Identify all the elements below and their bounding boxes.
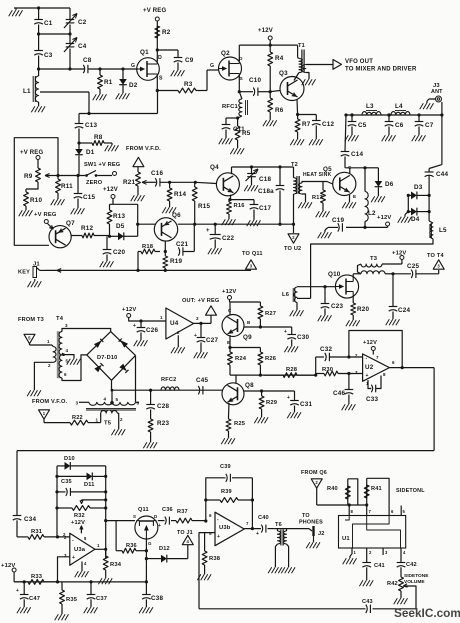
svg-text:+V REG: +V REG <box>143 8 167 14</box>
svg-text:R21: R21 <box>123 179 135 186</box>
svg-text:C46: C46 <box>333 390 345 397</box>
svg-text:T5: T5 <box>104 421 112 427</box>
svg-text:C2: C2 <box>78 19 87 26</box>
svg-text:FROM T3: FROM T3 <box>18 317 44 323</box>
svg-text:R36: R36 <box>126 543 137 549</box>
svg-text:C13: C13 <box>85 122 97 129</box>
svg-text:C25: C25 <box>407 263 419 270</box>
svg-text:R23: R23 <box>157 420 169 427</box>
svg-text:S: S <box>159 76 163 82</box>
svg-text:2: 2 <box>64 535 67 540</box>
svg-text:ANT: ANT <box>431 89 443 95</box>
svg-text:G: G <box>210 63 214 69</box>
svg-text:C28: C28 <box>157 403 169 410</box>
svg-text:C12: C12 <box>322 121 334 128</box>
svg-text:L6: L6 <box>282 292 290 298</box>
svg-text:C14: C14 <box>351 151 363 158</box>
svg-text:C23: C23 <box>331 303 343 310</box>
svg-text:C9: C9 <box>185 57 194 64</box>
svg-text:-: - <box>366 356 368 362</box>
svg-text:C37: C37 <box>96 596 107 602</box>
svg-text:C19: C19 <box>332 217 344 224</box>
svg-text:7: 7 <box>246 521 249 526</box>
svg-text:T2: T2 <box>291 162 298 168</box>
svg-text:C17: C17 <box>259 205 271 212</box>
svg-text:+: + <box>133 323 136 329</box>
svg-text:S: S <box>240 76 244 82</box>
svg-text:PHONES: PHONES <box>299 520 323 526</box>
svg-text:+: + <box>287 395 290 401</box>
svg-text:R6: R6 <box>275 107 284 114</box>
svg-text:2: 2 <box>177 330 180 335</box>
svg-text:+12V: +12V <box>377 215 392 221</box>
svg-text:C: C <box>228 308 232 313</box>
svg-text:VFO OUT: VFO OUT <box>345 59 373 65</box>
svg-text:C38: C38 <box>151 595 163 602</box>
svg-text:D2: D2 <box>129 82 138 89</box>
svg-text:R9: R9 <box>24 173 33 180</box>
svg-text:R8: R8 <box>94 134 103 141</box>
svg-text:C35: C35 <box>61 479 72 485</box>
svg-text:D5: D5 <box>116 223 125 230</box>
svg-text:2: 2 <box>355 353 358 358</box>
svg-text:R14: R14 <box>174 191 186 198</box>
svg-text:TO MIXER AND DRIVER: TO MIXER AND DRIVER <box>345 67 417 73</box>
svg-text:FROM V.F.O.: FROM V.F.O. <box>32 399 67 405</box>
svg-text:SeekIC.com: SeekIC.com <box>394 606 460 620</box>
svg-text:2: 2 <box>48 363 51 368</box>
svg-text:R41: R41 <box>371 486 382 492</box>
svg-text:C41: C41 <box>374 563 385 569</box>
svg-text:J2: J2 <box>318 531 325 537</box>
svg-text:R4: R4 <box>275 55 284 62</box>
svg-text:R20: R20 <box>357 306 369 313</box>
svg-text:R18: R18 <box>142 244 154 250</box>
svg-text:D1: D1 <box>86 149 95 156</box>
svg-text:3: 3 <box>196 316 199 321</box>
svg-text:Q6: Q6 <box>172 212 181 219</box>
svg-text:KEY: KEY <box>18 270 30 276</box>
svg-text:D: D <box>154 514 158 519</box>
svg-text:C16: C16 <box>151 170 163 177</box>
svg-text:Q7: Q7 <box>66 220 75 227</box>
svg-text:+V REG: +V REG <box>20 150 44 156</box>
svg-text:R25: R25 <box>234 421 246 427</box>
svg-text:T1: T1 <box>298 43 305 49</box>
svg-text:C40: C40 <box>258 515 269 521</box>
svg-text:R19: R19 <box>170 258 182 265</box>
svg-text:+12V: +12V <box>71 520 85 526</box>
svg-text:C32: C32 <box>320 346 332 353</box>
svg-text:3: 3 <box>76 401 79 406</box>
svg-text:L1: L1 <box>23 88 31 95</box>
svg-text:Q10: Q10 <box>328 271 341 278</box>
svg-text:U3b: U3b <box>219 525 231 531</box>
svg-text:TO J1: TO J1 <box>177 530 193 536</box>
svg-text:R27: R27 <box>265 311 276 317</box>
svg-text:C8: C8 <box>83 57 92 64</box>
svg-text:SIDETONL: SIDETONL <box>396 488 425 494</box>
svg-text:6: 6 <box>209 513 212 518</box>
svg-text:4: 4 <box>104 397 107 402</box>
svg-text:C1: C1 <box>44 20 53 27</box>
svg-text:R24: R24 <box>235 356 247 362</box>
svg-text:1: 1 <box>47 339 50 344</box>
svg-text:1: 1 <box>160 315 163 320</box>
svg-text:C22: C22 <box>222 235 234 242</box>
svg-text:G: G <box>148 541 152 546</box>
svg-text:+12V: +12V <box>392 251 407 257</box>
svg-text:SIDETONE: SIDETONE <box>404 573 429 579</box>
svg-text:C18a: C18a <box>258 188 274 195</box>
svg-text:Q3: Q3 <box>279 70 288 77</box>
svg-text:Q4: Q4 <box>210 164 219 171</box>
svg-text:C43: C43 <box>362 599 373 605</box>
svg-text:C10: C10 <box>249 77 261 84</box>
svg-text:R40: R40 <box>327 486 338 492</box>
svg-text:+: + <box>206 228 210 234</box>
svg-text:R33: R33 <box>31 574 43 580</box>
svg-text:L4: L4 <box>395 103 403 110</box>
svg-text:C21: C21 <box>176 241 188 248</box>
svg-text:Q11: Q11 <box>138 507 149 513</box>
svg-text:R11: R11 <box>61 183 73 190</box>
svg-text:R10: R10 <box>30 197 42 204</box>
svg-text:U3a: U3a <box>74 547 86 553</box>
svg-text:D6: D6 <box>385 181 394 188</box>
svg-text:T6: T6 <box>275 522 282 528</box>
svg-text:RFC2: RFC2 <box>161 377 176 383</box>
svg-text:C39: C39 <box>220 464 231 470</box>
svg-text:L5: L5 <box>439 227 447 234</box>
svg-text:C7: C7 <box>425 122 434 129</box>
svg-text:2: 2 <box>120 417 123 422</box>
svg-text:R3: R3 <box>184 81 193 88</box>
svg-text:L3: L3 <box>366 103 374 110</box>
svg-text:5: 5 <box>116 397 119 402</box>
svg-text:G: G <box>131 63 135 69</box>
svg-text:4: 4 <box>66 348 69 353</box>
svg-text:TO: TO <box>302 513 310 519</box>
svg-text:Q5: Q5 <box>323 166 332 173</box>
svg-text:C27: C27 <box>206 337 218 344</box>
svg-text:OUT: +V REG: OUT: +V REG <box>182 298 219 304</box>
svg-text:+12V: +12V <box>363 340 377 346</box>
svg-text:R34: R34 <box>110 562 122 568</box>
svg-text:R5: R5 <box>242 130 251 137</box>
svg-text:ZERO: ZERO <box>86 180 103 186</box>
svg-text:+: + <box>256 531 259 537</box>
svg-text:+: + <box>194 333 197 339</box>
svg-text:S: S <box>133 514 136 519</box>
svg-text:R32: R32 <box>74 513 85 519</box>
svg-text:5: 5 <box>209 531 212 536</box>
svg-text:C15: C15 <box>83 194 95 201</box>
svg-text:R15: R15 <box>198 203 210 210</box>
svg-text:TO U2: TO U2 <box>284 246 301 252</box>
svg-text:T3: T3 <box>370 256 378 262</box>
svg-text:D12: D12 <box>159 546 170 552</box>
svg-text:3: 3 <box>355 370 358 375</box>
svg-text:1: 1 <box>96 418 99 423</box>
svg-text:R35: R35 <box>66 597 78 603</box>
svg-text:-: - <box>72 538 74 544</box>
svg-text:+: + <box>284 329 287 335</box>
svg-text:C34: C34 <box>24 516 36 523</box>
svg-text:Q2: Q2 <box>221 50 230 57</box>
svg-text:D10: D10 <box>64 456 75 462</box>
svg-text:5: 5 <box>66 359 69 364</box>
svg-text:U4: U4 <box>170 320 179 327</box>
svg-text:C4: C4 <box>78 43 87 50</box>
svg-text:TO T4: TO T4 <box>427 253 444 259</box>
svg-text:C26: C26 <box>146 327 158 334</box>
svg-text:Q8: Q8 <box>245 382 254 389</box>
svg-text:R17: R17 <box>312 195 323 201</box>
svg-text:D3: D3 <box>414 184 423 191</box>
svg-text:C3: C3 <box>44 52 53 59</box>
svg-text:C24: C24 <box>398 307 410 314</box>
svg-text:6: 6 <box>64 372 67 377</box>
svg-text:C6: C6 <box>395 122 404 129</box>
svg-text:R29: R29 <box>266 400 278 406</box>
svg-text:D11: D11 <box>84 482 95 488</box>
svg-text:R1: R1 <box>104 79 113 86</box>
svg-text:Q1: Q1 <box>140 49 149 56</box>
svg-text:+: + <box>16 588 19 594</box>
svg-text:+12V: +12V <box>222 289 237 295</box>
svg-text:D4: D4 <box>411 216 420 223</box>
svg-text:+12V: +12V <box>122 307 137 313</box>
svg-text:L2: L2 <box>368 210 376 217</box>
svg-text:C47: C47 <box>29 596 40 602</box>
svg-text:D: D <box>158 55 162 61</box>
svg-text:TO Q11: TO Q11 <box>242 251 263 257</box>
svg-text:R31: R31 <box>31 529 43 535</box>
svg-text:R12: R12 <box>81 225 93 232</box>
svg-text:R39: R39 <box>221 489 232 495</box>
svg-text:D7-D10: D7-D10 <box>97 355 117 361</box>
svg-text:1: 1 <box>97 543 100 548</box>
svg-text:+12V: +12V <box>1 563 16 569</box>
svg-text:R22: R22 <box>72 415 83 421</box>
svg-text:T4: T4 <box>56 316 64 322</box>
svg-text:FROM V.F.D.: FROM V.F.D. <box>126 146 161 152</box>
svg-text:R26: R26 <box>265 356 277 362</box>
svg-text:-: - <box>217 517 219 523</box>
svg-text:RFC1: RFC1 <box>222 104 239 110</box>
svg-text:Q9: Q9 <box>243 334 252 341</box>
svg-text:+: + <box>72 555 75 561</box>
svg-text:R42: R42 <box>387 581 398 587</box>
svg-text:C44: C44 <box>436 171 448 178</box>
svg-text:R30: R30 <box>322 367 333 373</box>
svg-text:FROM Q6: FROM Q6 <box>301 470 327 476</box>
svg-text:+V REG: +V REG <box>34 212 57 218</box>
svg-text:SW1 +V REG: SW1 +V REG <box>84 162 120 168</box>
svg-text:7: 7 <box>376 355 379 360</box>
svg-text:R37: R37 <box>177 509 188 515</box>
svg-text:6: 6 <box>137 401 140 406</box>
svg-text:C18: C18 <box>259 176 271 183</box>
svg-text:+: + <box>366 373 369 379</box>
svg-text:C36: C36 <box>162 507 173 513</box>
svg-text:C33: C33 <box>366 396 378 403</box>
svg-text:B: B <box>247 320 251 325</box>
svg-text:C45: C45 <box>196 377 208 384</box>
svg-text:U2: U2 <box>365 364 374 371</box>
svg-text:R38: R38 <box>209 556 221 562</box>
svg-text:C42: C42 <box>406 562 417 568</box>
svg-text:6: 6 <box>392 360 395 365</box>
svg-text:3: 3 <box>65 323 68 328</box>
svg-text:R13: R13 <box>113 213 125 220</box>
svg-text:+12V: +12V <box>103 187 118 193</box>
svg-text:C5: C5 <box>358 122 367 129</box>
svg-text:C20: C20 <box>113 249 125 256</box>
svg-text:8: 8 <box>383 372 386 377</box>
svg-text:C30: C30 <box>297 334 309 341</box>
svg-text:R7: R7 <box>302 121 311 128</box>
svg-text:C31: C31 <box>300 401 312 408</box>
svg-text:+: + <box>217 534 220 540</box>
svg-text:R16: R16 <box>234 203 246 209</box>
svg-text:E: E <box>353 194 357 200</box>
svg-text:R2: R2 <box>162 29 171 36</box>
svg-text:+: + <box>158 523 161 529</box>
svg-text:R28: R28 <box>286 367 298 373</box>
svg-text:+12V: +12V <box>258 28 273 34</box>
svg-text:U1: U1 <box>342 536 350 542</box>
